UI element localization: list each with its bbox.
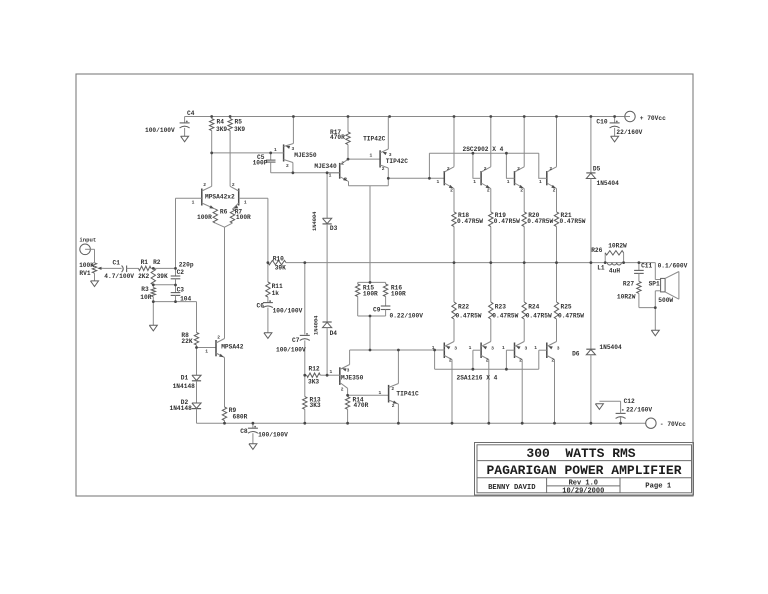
wire bbox=[523, 117, 525, 167]
label R13 bbox=[310, 397, 321, 404]
label 0.1/600V bbox=[658, 263, 688, 270]
wire bbox=[523, 189, 525, 212]
svg-text:0.47R5W: 0.47R5W bbox=[526, 313, 552, 320]
transistor Q16 MPSA42 bbox=[216, 339, 225, 358]
svg-text:2: 2 bbox=[447, 166, 450, 172]
title block bbox=[475, 443, 694, 496]
label R1 bbox=[141, 259, 149, 266]
svg-text:1N5404: 1N5404 bbox=[599, 344, 622, 351]
label 1N4004 bbox=[314, 315, 320, 335]
wire base stub bbox=[506, 349, 514, 351]
resistor R17 bbox=[346, 117, 350, 160]
label R15 bbox=[363, 285, 374, 292]
svg-text:R2: R2 bbox=[153, 259, 161, 266]
svg-text:TIP41C: TIP41C bbox=[396, 391, 419, 398]
wire bbox=[326, 173, 328, 219]
svg-text:100/100V: 100/100V bbox=[273, 308, 303, 315]
svg-text:3: 3 bbox=[454, 346, 457, 352]
svg-text:C6: C6 bbox=[257, 303, 265, 310]
wire base stub bbox=[473, 177, 482, 179]
transistor Q10 2SA1216 bbox=[444, 342, 454, 360]
svg-text:2SC2902 X 4: 2SC2902 X 4 bbox=[463, 146, 504, 153]
label C3 bbox=[177, 287, 185, 294]
capacitor C1 bbox=[122, 266, 139, 273]
svg-text:0.47R5W: 0.47R5W bbox=[560, 218, 586, 225]
svg-text:R5: R5 bbox=[235, 118, 243, 125]
inductor L1 4uH bbox=[607, 263, 621, 265]
wire output rail bbox=[286, 262, 655, 264]
resistor R5 bbox=[228, 117, 232, 187]
label 104 bbox=[180, 296, 191, 303]
diode D1 1N4148 bbox=[192, 375, 201, 381]
pin 3 bbox=[347, 368, 350, 374]
transistor Q4 MJE340 bbox=[327, 159, 348, 181]
svg-text:D1: D1 bbox=[181, 375, 189, 382]
pin 2 bbox=[553, 188, 556, 194]
svg-text:C8: C8 bbox=[240, 428, 248, 435]
wire bbox=[387, 117, 389, 150]
wire bbox=[654, 308, 656, 331]
wire bbox=[196, 348, 198, 376]
label R10 bbox=[273, 255, 284, 262]
label R3 bbox=[141, 286, 149, 293]
svg-text:2: 2 bbox=[391, 386, 394, 392]
resistor R19 0.47R 5W bbox=[489, 212, 493, 263]
svg-text:3: 3 bbox=[491, 346, 494, 352]
capacitor C8 bbox=[248, 423, 258, 444]
label 1k bbox=[272, 290, 280, 297]
wire bbox=[369, 281, 371, 283]
wire bbox=[347, 388, 349, 395]
svg-text:1: 1 bbox=[437, 179, 440, 185]
label MJE340 bbox=[314, 163, 337, 170]
label 10R bbox=[140, 294, 151, 301]
wire bbox=[348, 394, 389, 396]
wire bbox=[505, 350, 507, 369]
label 0.47R5W bbox=[526, 313, 552, 320]
pin 3 bbox=[491, 346, 494, 352]
svg-text:1k: 1k bbox=[272, 290, 280, 297]
pin 1 bbox=[469, 345, 472, 351]
svg-text:R3: R3 bbox=[141, 286, 149, 293]
resistor R26 bbox=[605, 251, 623, 263]
resistor R14 bbox=[345, 395, 349, 423]
pin 2 bbox=[450, 188, 453, 194]
wire bbox=[505, 153, 507, 178]
svg-text:2: 2 bbox=[286, 163, 289, 169]
pin 1 bbox=[534, 345, 537, 351]
wire bbox=[521, 360, 523, 424]
resistor R25 0.47R 5W bbox=[554, 263, 558, 319]
label 100P bbox=[253, 160, 268, 167]
svg-text:1: 1 bbox=[205, 349, 208, 355]
wire bbox=[348, 182, 350, 186]
wire tail bbox=[224, 227, 226, 338]
wire left base drop bbox=[175, 198, 177, 268]
label R4 bbox=[216, 118, 227, 133]
ground bbox=[264, 333, 272, 339]
label 39K bbox=[275, 264, 286, 271]
svg-text:2: 2 bbox=[341, 161, 344, 167]
svg-text:C7: C7 bbox=[292, 337, 300, 344]
svg-text:2: 2 bbox=[520, 188, 523, 194]
svg-text:1N4148: 1N4148 bbox=[173, 383, 196, 390]
svg-text:3: 3 bbox=[525, 346, 528, 352]
wire bbox=[397, 404, 399, 423]
label 1N5404 bbox=[599, 344, 622, 351]
label C5 bbox=[257, 154, 265, 161]
label 0.47R5W bbox=[560, 218, 586, 225]
border frame bbox=[76, 74, 693, 496]
svg-text:MJE350: MJE350 bbox=[294, 152, 317, 159]
svg-text:2: 2 bbox=[549, 166, 552, 172]
label + 70Vcc bbox=[640, 115, 666, 122]
svg-text:PAGARIGAN POWER AMPLIFIER: PAGARIGAN POWER AMPLIFIER bbox=[486, 463, 681, 478]
transistor Q2 MPSA42 (right) bbox=[230, 186, 268, 209]
svg-text:R22: R22 bbox=[458, 304, 469, 311]
svg-text:1N4004: 1N4004 bbox=[312, 211, 318, 231]
label SP1 bbox=[649, 281, 660, 288]
pin 3 bbox=[292, 146, 295, 152]
svg-text:3K3: 3K3 bbox=[310, 402, 321, 409]
svg-text:2: 2 bbox=[484, 166, 487, 172]
transistor Q1 MPSA42 (left) bbox=[176, 186, 216, 209]
svg-text:L1: L1 bbox=[597, 264, 605, 271]
label R21 bbox=[561, 212, 572, 219]
label R12 bbox=[309, 365, 320, 372]
wire bbox=[590, 179, 592, 263]
pin 1 bbox=[192, 199, 195, 205]
svg-text:680R: 680R bbox=[233, 413, 248, 420]
svg-text:500W: 500W bbox=[658, 297, 673, 304]
diode D3 1N4004 bbox=[323, 218, 332, 224]
terminal +70Vcc bbox=[625, 111, 635, 121]
label BENNY DAVID bbox=[488, 484, 536, 492]
capacitor C11 bbox=[634, 263, 644, 282]
svg-text:220p: 220p bbox=[179, 262, 194, 269]
pin 2 bbox=[447, 166, 450, 172]
svg-text:R24: R24 bbox=[528, 304, 539, 311]
svg-text:C1: C1 bbox=[113, 260, 121, 267]
pin 1 bbox=[437, 179, 440, 185]
wire bbox=[397, 350, 399, 384]
diode D5 1N5404 bbox=[586, 173, 595, 179]
wire bbox=[94, 249, 96, 262]
pin 1 bbox=[274, 147, 277, 153]
pin 2 bbox=[232, 182, 235, 188]
svg-text:2: 2 bbox=[517, 166, 520, 172]
wire VAS base line bbox=[212, 152, 271, 154]
label 2SA1216 X 4 bbox=[457, 375, 498, 382]
svg-text:0.22/100V: 0.22/100V bbox=[390, 313, 424, 320]
wire bbox=[490, 319, 492, 342]
potentiometer RV1 bbox=[92, 263, 103, 273]
svg-text:10/29/2000: 10/29/2000 bbox=[562, 487, 604, 495]
transistor Q12 2SA1216 bbox=[515, 342, 525, 360]
wire bbox=[369, 316, 371, 350]
svg-text:1: 1 bbox=[192, 199, 195, 205]
svg-text:1: 1 bbox=[473, 179, 476, 185]
label R5 bbox=[234, 118, 245, 133]
pin 3 bbox=[454, 346, 457, 352]
svg-text:R25: R25 bbox=[561, 304, 572, 311]
svg-text:0.1/600V: 0.1/600V bbox=[658, 263, 688, 270]
svg-text:C12: C12 bbox=[624, 398, 635, 405]
svg-text:C9: C9 bbox=[373, 307, 381, 314]
label 22/160V bbox=[626, 407, 652, 414]
transistor Q11 2SA1216 bbox=[481, 342, 491, 360]
label C7 bbox=[292, 337, 300, 344]
label 1N4148 bbox=[170, 405, 193, 412]
svg-text:1: 1 bbox=[379, 390, 382, 396]
label R24 bbox=[528, 304, 539, 311]
label D4 bbox=[330, 330, 338, 337]
resistor R4 bbox=[210, 117, 214, 187]
transistor Q5 TIP42C bbox=[380, 149, 388, 168]
label MPSA42 bbox=[221, 343, 244, 350]
svg-text:2: 2 bbox=[519, 358, 522, 364]
wire base bus bbox=[429, 152, 538, 154]
ground bbox=[249, 444, 257, 450]
svg-text:R1: R1 bbox=[141, 259, 149, 266]
svg-text:MJE340: MJE340 bbox=[314, 163, 337, 170]
pin 1 bbox=[502, 345, 505, 351]
label 100R bbox=[363, 291, 378, 298]
label Rev 1.0 bbox=[569, 480, 598, 488]
label D2 bbox=[181, 399, 189, 406]
svg-text:3: 3 bbox=[347, 368, 350, 374]
wire bbox=[197, 347, 217, 349]
wire bbox=[348, 158, 380, 160]
pin 2 bbox=[341, 387, 344, 393]
label 3K3 bbox=[308, 379, 319, 386]
label 680R bbox=[233, 413, 248, 420]
wire VAS mid drop bbox=[369, 186, 371, 283]
pin 1 bbox=[205, 349, 208, 355]
ground bbox=[611, 136, 619, 142]
wire bbox=[326, 328, 328, 376]
wire bbox=[292, 163, 294, 173]
svg-text:R12: R12 bbox=[309, 365, 320, 372]
svg-text:2: 2 bbox=[341, 387, 344, 393]
wire bbox=[428, 153, 430, 178]
wire bbox=[590, 117, 592, 173]
svg-text:R6: R6 bbox=[220, 209, 228, 216]
label MJE350 bbox=[294, 152, 317, 159]
svg-text:3K9: 3K9 bbox=[216, 126, 227, 133]
wire bbox=[292, 117, 294, 144]
svg-text:2: 2 bbox=[487, 188, 490, 194]
label R17 bbox=[330, 129, 341, 136]
wire base feed bbox=[388, 177, 445, 179]
capacitor C9 bbox=[381, 306, 391, 316]
capacitor C12 bbox=[599, 401, 625, 423]
svg-text:300 WATTS RMS: 300 WATTS RMS bbox=[526, 446, 635, 461]
svg-text:C3: C3 bbox=[177, 287, 185, 294]
svg-text:470R: 470R bbox=[354, 402, 369, 409]
svg-text:0.47R5W: 0.47R5W bbox=[492, 313, 518, 320]
wire bbox=[538, 350, 540, 369]
svg-text:SP1: SP1 bbox=[649, 281, 660, 288]
svg-text:0.47R5W: 0.47R5W bbox=[558, 313, 584, 320]
ground bbox=[595, 404, 603, 410]
label R27 bbox=[623, 281, 634, 288]
label R20 bbox=[528, 212, 539, 219]
label 39K bbox=[157, 273, 168, 280]
label 100/100V bbox=[276, 347, 306, 354]
svg-text:39K: 39K bbox=[275, 264, 286, 271]
svg-text:+ 70Vcc: + 70Vcc bbox=[640, 115, 666, 122]
pin 2 bbox=[487, 188, 490, 194]
svg-text:input: input bbox=[79, 236, 96, 243]
label 10/29/2000 bbox=[562, 487, 604, 495]
wire bbox=[472, 350, 474, 369]
svg-text:0.47R5W: 0.47R5W bbox=[456, 313, 482, 320]
label 100K bbox=[79, 262, 94, 269]
pin 2 bbox=[449, 358, 452, 364]
label L1 bbox=[597, 264, 605, 271]
svg-text:1: 1 bbox=[469, 345, 472, 351]
wire right base drop bbox=[267, 198, 269, 262]
resistor R12 bbox=[305, 373, 327, 377]
label 0.22/100V bbox=[390, 313, 424, 320]
svg-text:1: 1 bbox=[330, 369, 333, 375]
resistor R16 bbox=[383, 282, 387, 306]
transistor Q6 2SC2902 bbox=[444, 167, 454, 189]
resistor R15 bbox=[356, 282, 360, 316]
svg-text:0.47R5W: 0.47R5W bbox=[457, 218, 483, 225]
label C6 bbox=[257, 303, 265, 310]
svg-text:10R2W: 10R2W bbox=[608, 243, 627, 250]
label 100/100V bbox=[273, 308, 303, 315]
svg-text:R23: R23 bbox=[495, 304, 506, 311]
label C10 bbox=[596, 118, 607, 125]
pin 2 bbox=[517, 166, 520, 172]
label 2SC2902 X 4 bbox=[463, 146, 504, 153]
svg-text:Rev 1.0: Rev 1.0 bbox=[569, 480, 598, 488]
svg-text:2: 2 bbox=[486, 358, 489, 364]
label 2K2 bbox=[138, 273, 149, 280]
wire bbox=[451, 360, 453, 424]
speaker SP1 500W bbox=[655, 263, 679, 308]
label 0.47R5W bbox=[558, 313, 584, 320]
wire bbox=[556, 189, 558, 212]
wire -70V bottom rail bbox=[197, 422, 646, 424]
svg-text:0.47R5W: 0.47R5W bbox=[527, 218, 553, 225]
svg-text:R4: R4 bbox=[217, 118, 225, 125]
wire bbox=[538, 153, 540, 178]
label TIP42C bbox=[363, 135, 386, 142]
svg-text:D3: D3 bbox=[330, 225, 338, 232]
svg-text:3: 3 bbox=[292, 146, 295, 152]
wire bbox=[523, 319, 525, 342]
svg-text:MJE350: MJE350 bbox=[341, 375, 364, 382]
label 0.47R5W bbox=[492, 313, 518, 320]
label 100R bbox=[391, 291, 406, 298]
svg-text:R10: R10 bbox=[273, 255, 284, 262]
label R18 bbox=[458, 212, 469, 219]
pin 1 bbox=[539, 179, 542, 185]
svg-text:MPSA42x2: MPSA42x2 bbox=[205, 194, 235, 201]
resistor R21 0.47R 5W bbox=[554, 212, 558, 263]
wire bbox=[556, 117, 558, 167]
svg-text:D4: D4 bbox=[330, 330, 338, 337]
label 100R bbox=[197, 214, 212, 221]
pin 1 bbox=[507, 179, 510, 185]
svg-text:2: 2 bbox=[551, 358, 554, 364]
wire base stub bbox=[538, 177, 547, 179]
wire bbox=[453, 189, 455, 212]
transistor Q9 2SC2902 bbox=[547, 167, 557, 189]
capacitor C5 bbox=[266, 153, 276, 173]
label TIP42C bbox=[386, 158, 409, 165]
svg-text:100/100V: 100/100V bbox=[145, 127, 175, 134]
svg-text:2: 2 bbox=[232, 182, 235, 188]
transistor Q3 MJE350 bbox=[271, 144, 294, 163]
svg-text:22/160V: 22/160V bbox=[616, 129, 642, 136]
svg-text:4uH: 4uH bbox=[609, 267, 620, 274]
svg-text:C2: C2 bbox=[177, 269, 185, 276]
label 0.47R5W bbox=[527, 218, 553, 225]
label 10R2W bbox=[608, 243, 627, 250]
wire bbox=[153, 301, 196, 303]
svg-text:1: 1 bbox=[534, 345, 537, 351]
svg-text:Page 1: Page 1 bbox=[645, 482, 672, 490]
resistor R10 bbox=[268, 260, 286, 264]
svg-text:100/100V: 100/100V bbox=[258, 432, 288, 439]
svg-text:TIP42C: TIP42C bbox=[363, 135, 386, 142]
wire bbox=[434, 350, 436, 369]
label C4 bbox=[187, 110, 195, 117]
label 100R bbox=[236, 214, 251, 221]
wire bbox=[104, 267, 122, 269]
pin 2 bbox=[519, 358, 522, 364]
svg-text:100/100V: 100/100V bbox=[276, 347, 306, 354]
svg-text:1N4148: 1N4148 bbox=[170, 405, 193, 412]
label Page 1 bbox=[645, 482, 672, 490]
label R16 bbox=[391, 285, 402, 292]
label R9 bbox=[229, 407, 237, 414]
resistor R20 0.47R 5W bbox=[522, 212, 526, 263]
label TIP41C bbox=[396, 391, 419, 398]
pin 1 bbox=[473, 179, 476, 185]
pin 3 bbox=[557, 346, 560, 352]
pin 3 bbox=[389, 152, 392, 158]
capacitor C7 bbox=[300, 333, 310, 375]
label R26 bbox=[591, 247, 602, 254]
svg-text:39K: 39K bbox=[157, 273, 168, 280]
ground bbox=[91, 281, 99, 287]
label C11 bbox=[641, 263, 652, 270]
pin 2 bbox=[391, 386, 394, 392]
svg-text:R11: R11 bbox=[272, 283, 283, 290]
wire bbox=[472, 153, 474, 178]
label C12 bbox=[624, 398, 635, 405]
label 470R bbox=[354, 402, 369, 409]
transistor Q15 TIP41C bbox=[389, 384, 399, 405]
svg-text:1: 1 bbox=[370, 153, 373, 159]
label C2 bbox=[177, 269, 185, 276]
svg-text:1: 1 bbox=[274, 147, 277, 153]
ground bbox=[181, 136, 189, 142]
svg-text:100R: 100R bbox=[236, 214, 251, 221]
wire bbox=[196, 409, 198, 424]
pin 1 bbox=[370, 153, 373, 159]
svg-text:D5: D5 bbox=[593, 166, 601, 173]
label RV1 bbox=[79, 270, 90, 277]
capacitor C2 bbox=[171, 268, 181, 285]
capacitor C6 bbox=[263, 300, 273, 333]
